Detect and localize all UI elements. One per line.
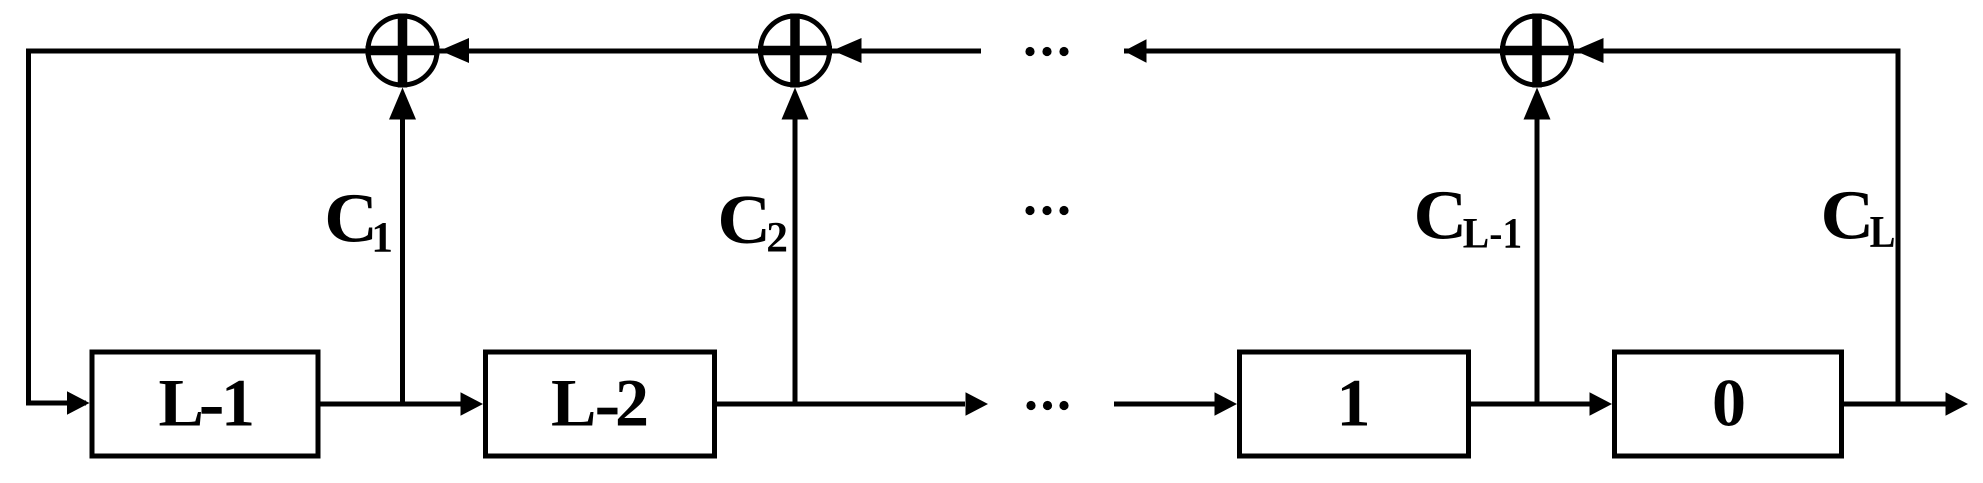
wire: tap C(L-1) vertical — [1535, 112, 1540, 404]
svg-text:L: L — [159, 365, 204, 441]
wire: feedback CL vertical on far right — [1896, 49, 1901, 406]
wire: tap C2 vertical — [793, 112, 798, 404]
dots: top ellipsis — [1025, 47, 1068, 56]
wire: top feedback line right segment — [1124, 49, 1901, 54]
dots: middle ellipsis — [1025, 206, 1068, 215]
arrowhead into register 1 — [1215, 392, 1238, 416]
svg-text:1: 1 — [221, 365, 255, 441]
wire: register 1 output to register 0 — [1469, 402, 1592, 407]
svg-text:L: L — [1870, 208, 1896, 257]
wire: dots to register 1 — [1114, 402, 1219, 407]
svg-text:C: C — [717, 181, 771, 258]
svg-text:1: 1 — [371, 214, 393, 262]
arrowhead into adder U1 from right — [440, 38, 469, 63]
xor adder U2 — [758, 14, 832, 88]
svg-text:L: L — [551, 365, 596, 441]
register L-1 box — [92, 352, 318, 456]
arrowhead into register L-1 — [67, 391, 90, 415]
svg-text:C: C — [324, 180, 378, 257]
arrowhead into register 0 — [1590, 392, 1613, 416]
wire: register 0 output — [1839, 402, 1946, 407]
register 0 box — [1615, 352, 1842, 456]
arrowhead into adder U2 from right — [833, 38, 862, 63]
xor adder U3 — [1500, 14, 1574, 88]
svg-text:2: 2 — [615, 365, 649, 441]
register L-2 box — [486, 352, 715, 456]
wire: top feedback line left segment — [26, 49, 981, 54]
arrowhead up into adder U3 — [1524, 88, 1551, 120]
wire: tap C1 vertical — [400, 112, 405, 404]
svg-text:C: C — [1414, 177, 1468, 254]
arrowhead output — [1946, 392, 1969, 416]
svg-text:L-1: L-1 — [1463, 209, 1522, 257]
svg-text:1: 1 — [1337, 365, 1371, 441]
arrowhead on top line pointing left (after dots) — [1124, 39, 1147, 63]
arrowhead into register L-2 — [461, 392, 484, 416]
wire: bottom-left feedback horizontal into L-1 — [26, 401, 86, 406]
svg-text:0: 0 — [1712, 365, 1746, 441]
svg-text:C: C — [1821, 177, 1875, 254]
arrowhead up into adder U1 — [389, 88, 416, 120]
arrowhead into adder U3 from right — [1575, 38, 1604, 63]
arrowhead before bottom dots — [966, 392, 989, 416]
xor adder U1 — [366, 14, 440, 88]
wire: L-2 output toward dots — [715, 402, 965, 407]
wire: left feedback vertical — [26, 49, 31, 406]
wire: L-1 output to L-2 — [318, 402, 463, 407]
register 1 box — [1240, 352, 1469, 456]
arrowhead up into adder U2 — [782, 88, 809, 120]
svg-text:2: 2 — [766, 214, 788, 262]
dots: bottom ellipsis — [1026, 401, 1068, 410]
